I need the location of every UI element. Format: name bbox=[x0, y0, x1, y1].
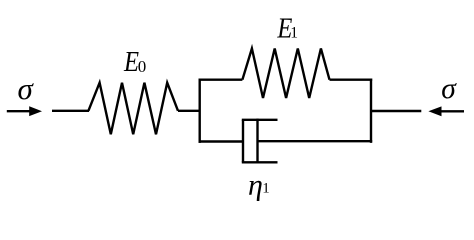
dashpot cylinder left wall bbox=[242, 120, 244, 163]
wire output bbox=[371, 110, 421, 112]
dashpot cylinder top wall bbox=[242, 119, 278, 121]
stress arrow right shaft bbox=[440, 110, 464, 112]
wire left rail bbox=[198, 79, 200, 143]
wire bottom rail right (piston rod) bbox=[258, 140, 373, 142]
wire spring E0 to node bbox=[178, 110, 200, 112]
wire top rail left bbox=[199, 78, 243, 80]
spring E0 bbox=[88, 83, 178, 135]
wire bottom rail left bbox=[199, 140, 244, 142]
svg-text:σ: σ bbox=[18, 71, 35, 106]
wire top rail right bbox=[330, 78, 373, 80]
dashpot piston plate bbox=[256, 119, 258, 164]
spring E1 bbox=[242, 49, 329, 99]
stress arrow left shaft bbox=[7, 110, 31, 112]
stress arrow left head bbox=[29, 106, 42, 116]
svg-text:1: 1 bbox=[262, 181, 270, 197]
svg-text:η: η bbox=[248, 169, 263, 202]
stress arrow right head bbox=[428, 106, 441, 116]
wire right rail bbox=[370, 79, 372, 143]
svg-text:σ: σ bbox=[441, 73, 457, 105]
svg-text:0: 0 bbox=[138, 57, 147, 76]
dashpot cylinder bottom wall bbox=[242, 161, 278, 163]
svg-text:1: 1 bbox=[290, 25, 298, 42]
wire input bbox=[52, 110, 89, 112]
